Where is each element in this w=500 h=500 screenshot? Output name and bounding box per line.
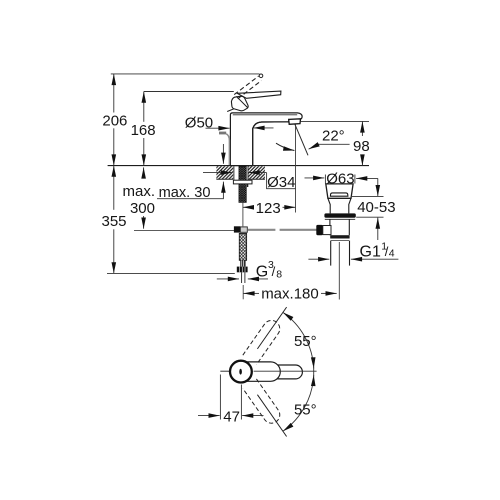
raised lever tip circle (259, 74, 263, 78)
svg-text:8: 8 (276, 268, 282, 280)
Ø63 extension stubs (325, 175, 355, 184)
max 300 top arrow (143, 167, 145, 178)
svg-text:/: / (272, 264, 276, 279)
swing radial line down (257, 395, 286, 437)
horizontal pop-up rod (248, 229, 318, 231)
swing arc lower 55 (283, 375, 314, 431)
pop-up rod knob at body (219, 132, 226, 135)
dimension 168 vertical line with arrows (143, 92, 145, 166)
svg-text:22°: 22° (322, 127, 345, 144)
40-53 dimension arrows (377, 178, 379, 240)
spout underside curve (253, 122, 289, 166)
countertop hatched section left (216, 166, 233, 179)
40-53 top extension line (351, 195, 384, 197)
drain cup top (326, 184, 353, 198)
mounting flange washer (233, 180, 252, 187)
dimension 47 arrows (198, 415, 264, 417)
dimension 47 extension lines (220, 375, 241, 420)
drain nut lower edge (331, 240, 349, 242)
swing radial line up (257, 307, 286, 349)
Ø63 right arrow leader (356, 177, 378, 179)
max300 leader to rod (134, 229, 234, 231)
extension line top of raised lever (206) (111, 73, 260, 75)
lever handle side view (237, 91, 281, 98)
label G1 1/4 (360, 241, 395, 261)
Ø34 hole right arrow (249, 172, 267, 174)
faucet body and spout outline (230, 113, 302, 166)
label G 3/8 (256, 259, 282, 281)
dimension 355 vertical line with arrows (113, 166, 115, 274)
drain plug dome (330, 193, 348, 196)
braided supply hose (239, 234, 246, 261)
top view dashed handle rotated down 55 (243, 379, 283, 427)
svg-text:206: 206 (102, 112, 127, 129)
threaded shank through countertop (234, 166, 248, 202)
G1 1/4 left arrow (308, 258, 329, 260)
max180 left extension line (242, 285, 244, 299)
handle base inner facet lines (227, 96, 247, 111)
max180 dimension arrows (243, 292, 336, 294)
label 22deg with leader (309, 127, 350, 149)
faucet centerline below shank (242, 202, 244, 226)
G3/8 thread left arrow (217, 278, 239, 280)
drain body below flange (325, 219, 355, 235)
svg-text:300: 300 (130, 200, 155, 217)
G3/8 thread right arrow (248, 278, 268, 280)
raised lever dashed position (234, 76, 261, 99)
svg-text:G: G (256, 264, 268, 281)
max. 30 label with leader (157, 144, 223, 201)
handle pin mark (239, 369, 242, 375)
max 300 bottom arrow (143, 216, 145, 229)
Ø34 hole left arrow (203, 172, 232, 174)
tailpipe centerline extension (338, 242, 340, 300)
22deg arc arrow (276, 143, 294, 150)
faucet top inner line (233, 114, 297, 116)
svg-text:max.: max. (122, 183, 155, 200)
40-53 bottom extension line (356, 216, 383, 218)
rod ball joint housing (323, 226, 331, 235)
hose knurled collar (240, 260, 245, 266)
svg-text:40-53: 40-53 (357, 199, 395, 216)
svg-text:355: 355 (101, 213, 126, 230)
hose end tube (242, 272, 245, 283)
spout outlet extension line (123 right) (295, 125, 297, 213)
countertop line (108, 165, 369, 167)
handle grip capsule (262, 365, 302, 379)
svg-text:168: 168 (131, 122, 156, 139)
pop-up rod along body (226, 134, 229, 165)
hose nut G3/8 (237, 267, 248, 273)
G1 1/4 right arrow leader (351, 258, 399, 260)
tee fitting on rod (234, 226, 247, 232)
svg-text:4: 4 (389, 248, 395, 260)
extension line hose end (355 bottom) (107, 272, 235, 274)
dimension 98 vertical with arrows (361, 121, 363, 165)
top view centerline (254, 370, 317, 372)
drain neck (328, 198, 351, 213)
svg-text:55°: 55° (294, 333, 317, 350)
top view dashed handle rotated up 55 (243, 317, 283, 365)
svg-text:G1: G1 (360, 243, 381, 260)
svg-text:123: 123 (256, 200, 281, 217)
drain bottom nut (330, 235, 349, 238)
svg-text:max.180: max.180 (261, 286, 319, 303)
svg-text:Ø50: Ø50 (185, 114, 213, 131)
svg-text:55°: 55° (294, 401, 317, 418)
handle base pivot (231, 96, 248, 111)
swing arc upper 55 (283, 312, 314, 368)
rod ball joint knob (316, 225, 323, 235)
top view centerline left tick (220, 370, 230, 372)
handle base capsule (232, 362, 280, 381)
max. 300 label (122, 183, 155, 217)
Ø50 left arrow to body (206, 127, 230, 129)
extension line spout outlet height (98) (301, 120, 370, 122)
svg-text:max. 30: max. 30 (159, 185, 211, 201)
svg-text:Ø34: Ø34 (267, 174, 295, 191)
countertop hatched section right (248, 166, 265, 179)
aerator at spout outlet (289, 119, 301, 125)
drain tailpipe (331, 241, 350, 266)
arc end tick (313, 366, 315, 378)
svg-text:98: 98 (353, 138, 370, 155)
Ø34 label with underline (267, 173, 296, 191)
drain flange seal (324, 213, 355, 217)
water stream line 22deg (295, 124, 308, 155)
Ø50 right arrow to body (253, 127, 273, 129)
extension line lever top (168) (144, 91, 234, 93)
Ø63 left arrow (305, 177, 325, 179)
faucet body circle top view (230, 361, 252, 383)
svg-text:47: 47 (223, 408, 240, 425)
dimension 123 with arrows (243, 206, 296, 208)
dimension 206 vertical line with arrows (113, 74, 115, 166)
